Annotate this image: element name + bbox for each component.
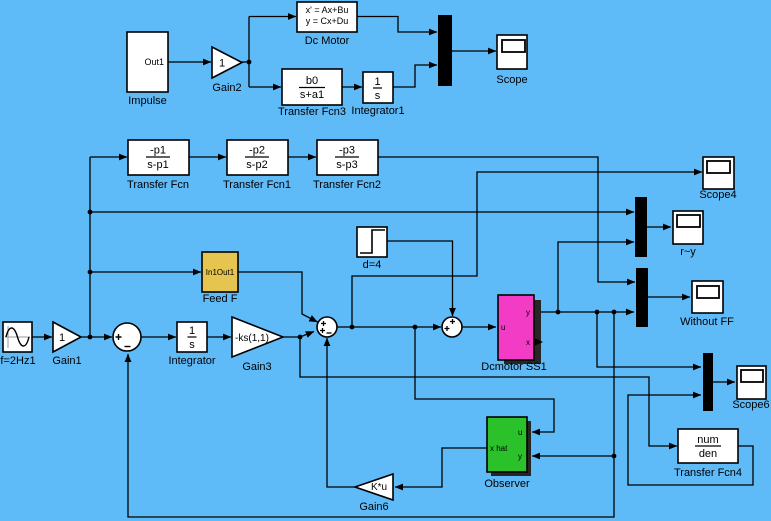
state-space Dcmotor SS1 [481,295,546,373]
svg-text:1: 1 [189,325,195,337]
node r junction C [88,335,93,340]
wire y to Mux4 top [597,312,701,367]
svg-text:Observer: Observer [484,478,530,490]
integrator Integrator1 [351,72,404,117]
mux Mux2 [635,197,647,257]
node y junction D [612,454,617,459]
svg-text:Gain6: Gain6 [359,501,388,513]
wire Gain3 to Sum3 [283,332,314,338]
svg-text:Gain3: Gain3 [242,361,271,373]
wire Integrator1 to Mux1 [393,65,437,87]
svg-text:s: s [375,90,381,102]
step d=4 [357,227,387,271]
wire r to Mux2 top [90,211,634,213]
wire Gain2 to junction [242,61,249,63]
wire Gain3 to Transfer Fcn4 [300,337,677,446]
wire y to Mux2 bottom [558,242,634,312]
node Sum3 out junction B [413,325,418,330]
scope r~y [673,211,703,258]
svg-text:s-p1: s-p1 [147,159,168,171]
port arrow x output [535,339,543,346]
svg-text:d=4: d=4 [363,259,382,271]
svg-text:num: num [697,434,718,446]
svg-text:Integrator1: Integrator1 [351,105,404,117]
svg-text:-p2: -p2 [249,145,265,157]
mux Mux4 [703,353,713,411]
svg-text:Feed F: Feed F [203,293,238,305]
sum Sum1 [113,323,141,351]
wire Transfer Fcn2 to Mux3 top [378,157,635,282]
svg-text:Gain1: Gain1 [52,355,81,367]
svg-text:x: x [526,338,530,347]
node Gain2 out junction [247,60,252,65]
svg-text:Scope: Scope [496,74,527,86]
scope Without FF [680,281,734,328]
node Gain3 out junction [298,335,303,340]
svg-text:Dc Motor: Dc Motor [305,35,350,47]
subsystem Observer [484,417,531,490]
mux Mux1 [438,15,452,86]
svg-text:r~y: r~y [680,246,696,258]
svg-text:x hat: x hat [490,444,508,453]
wire Gain6 to Sum3 bottom [327,338,355,487]
wire Sine to Gain1 [32,336,52,338]
scope Scope6 [732,366,769,411]
wire Mux2 to rscope [647,226,671,228]
wire to Transfer Fcn3 [249,86,281,88]
transfer function Transfer Fcn [127,140,189,191]
wire Sum3 to Sum2 [337,326,441,328]
svg-text:1: 1 [374,76,380,88]
svg-text:u: u [501,323,505,332]
subsystem Feed F [202,252,238,305]
svg-text:1: 1 [59,332,65,344]
svg-text:Without FF: Without FF [680,316,734,328]
wire Dc Motor to Mux1 [357,17,437,33]
scope Scope [496,35,527,86]
wire r riser [89,157,91,337]
svg-text:-ks(1,1): -ks(1,1) [235,333,269,344]
svg-text:y = Cx+Du: y = Cx+Du [306,16,349,26]
svg-text:-p3: -p3 [339,145,355,157]
svg-text:s+a1: s+a1 [300,89,324,101]
svg-text:y: y [526,308,530,317]
wire Transfer Fcn3 to Integrator1 [342,86,362,88]
wire Mux1 to Scope [452,50,496,52]
wire Sum2 to Dcmotor SS1 [462,326,496,328]
wire y to Observer [532,455,614,457]
wire Mux4 to Scope6 [713,381,735,383]
wire y down trunk [128,312,614,517]
wire Observer xhat to Gain6 [395,448,487,487]
integrator Integrator [168,322,215,367]
svg-text:Scope4: Scope4 [699,189,736,201]
node r junction B [88,270,93,275]
svg-text:K*u: K*u [371,482,387,493]
svg-text:b0: b0 [306,75,318,87]
node Sum3 out junction A [350,325,355,330]
svg-text:s: s [189,339,195,351]
svg-text:1: 1 [219,58,225,70]
transfer function Transfer Fcn4 [674,429,742,479]
svg-text:Dcmotor SS1: Dcmotor SS1 [481,361,546,373]
wire Transfer Fcn to Transfer Fcn1 [189,156,226,158]
svg-text:Integrator: Integrator [168,355,215,367]
svg-text:In1Out1: In1Out1 [206,268,235,277]
svg-text:s-p3: s-p3 [336,159,357,171]
wire Feed F to Sum3 [238,272,318,322]
wire Impulse to Gain2 [168,61,211,63]
svg-text:Transfer Fcn3: Transfer Fcn3 [278,106,346,118]
svg-text:den: den [699,448,717,460]
svg-text:Transfer Fcn4: Transfer Fcn4 [674,467,742,479]
wire Mux3 to WithoutFF [647,296,690,298]
svg-text:Transfer Fcn2: Transfer Fcn2 [313,179,381,191]
node y junction C [612,310,617,315]
sine wave f=2Hz1 [0,322,35,367]
wire Transfer Fcn1 to Transfer Fcn2 [288,156,316,158]
svg-text:x' = Ax+Bu: x' = Ax+Bu [306,5,349,15]
sum Sum3 [317,317,337,337]
wire y out [534,311,634,313]
wire junction vertical [248,17,250,88]
wire r to Feed F [90,271,201,273]
svg-text:Out1: Out1 [144,57,164,67]
gain Gain2 [212,47,242,94]
node y junction B [595,310,600,315]
svg-text:Gain2: Gain2 [212,82,241,94]
gain Gain6 [355,474,393,513]
svg-text:Transfer Fcn1: Transfer Fcn1 [223,179,291,191]
wire to Dc Motor [249,16,296,18]
wire Gain1 to Sum1 [81,336,112,338]
node r junction A [88,210,93,215]
svg-text:y: y [518,452,522,461]
svg-text:s-p2: s-p2 [246,159,267,171]
svg-text:f=2Hz1: f=2Hz1 [0,355,35,367]
svg-text:Impulse: Impulse [128,95,167,107]
svg-text:Scope6: Scope6 [732,399,769,411]
subsystem Impulse [127,32,168,107]
wire u to Scope4 [352,172,702,327]
wire d4 to Sum2 [387,241,453,316]
transfer function Transfer Fcn2 [313,140,381,191]
svg-text:u: u [518,428,522,437]
wire r to Transfer Fcn [90,156,127,158]
svg-text:Transfer Fcn: Transfer Fcn [127,179,189,191]
wire Transfer Fcn4 loop to Mux4 [628,395,753,485]
svg-text:-p1: -p1 [150,145,166,157]
state-space Dc Motor [297,2,357,47]
transfer function Transfer Fcn3 [278,69,346,118]
wire Sum1 to Integrator [141,336,176,338]
scope Scope4 [699,157,736,201]
node y junction A [556,310,561,315]
gain Gain3 [232,317,283,373]
mux Mux3 [636,268,648,327]
wire u to Observer [415,327,554,432]
wire Integrator to Gain3 [207,336,231,338]
transfer function Transfer Fcn1 [223,140,291,191]
sum Sum2 [442,317,462,337]
gain Gain1 [52,322,81,367]
